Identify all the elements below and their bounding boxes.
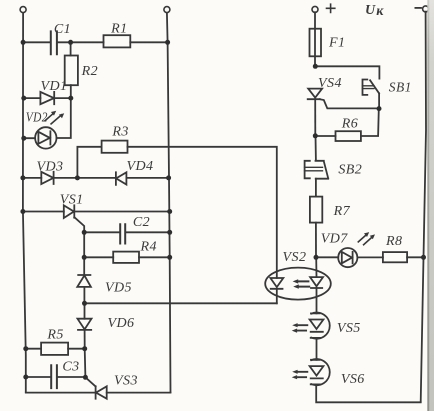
capacitor C1 <box>51 22 71 54</box>
wire R2 vertical <box>70 42 72 98</box>
node SB1-R6-gate <box>377 106 382 111</box>
diode VD4 <box>116 159 154 185</box>
wire F1 node to SB1 <box>315 66 379 78</box>
diode VD3 <box>36 159 63 184</box>
wire right rail <box>421 12 426 402</box>
diode VD6 <box>78 316 135 331</box>
svg-text:VS6: VS6 <box>341 372 365 387</box>
svg-text:VD6: VD6 <box>107 316 134 331</box>
label minus sign <box>415 7 421 9</box>
node R5 <box>23 346 28 351</box>
svg-text:R2: R2 <box>81 64 98 79</box>
node VD1 <box>21 96 26 101</box>
page edge shadow right <box>427 0 434 411</box>
thyristor VS3 <box>85 373 138 398</box>
svg-text:U: U <box>365 3 376 18</box>
wire C3 row <box>26 349 86 378</box>
svg-text:R3: R3 <box>111 125 128 140</box>
resistor R7 <box>310 197 351 223</box>
svg-text:C1: C1 <box>54 22 71 37</box>
wire bottom left row <box>26 392 171 394</box>
wire VD1 row <box>24 97 71 99</box>
label plus sign <box>327 4 335 12</box>
wire C2 row <box>84 231 170 233</box>
wire node to VD7 <box>316 256 338 258</box>
pushbutton SB2 <box>305 136 363 197</box>
resistor R4 <box>113 240 157 263</box>
wire R3 link <box>77 147 276 278</box>
node R7-VD7-VS2 <box>314 255 319 260</box>
svg-text:VD2: VD2 <box>26 110 48 125</box>
svg-text:к: к <box>376 4 384 19</box>
thyristor VS1 <box>60 193 84 233</box>
wire to VD5 <box>83 257 85 275</box>
optothyristor pair VS2 <box>265 250 331 313</box>
node F1-SB1 <box>313 64 318 69</box>
fuse F1 <box>310 29 346 57</box>
terminal plus <box>312 6 318 12</box>
capacitor C3 <box>51 359 79 388</box>
wire top row <box>23 41 168 43</box>
wire VD6 vertical <box>84 303 86 348</box>
wire VS4 to R6 node <box>314 99 316 136</box>
wire left-section right rail <box>167 12 171 391</box>
svg-text:VS3: VS3 <box>114 373 138 388</box>
svg-text:R8: R8 <box>385 234 402 249</box>
wire R4 row <box>84 232 170 257</box>
resistor R8 <box>383 234 407 262</box>
LED VD7 <box>321 231 375 267</box>
node R4 <box>82 255 87 260</box>
svg-text:R5: R5 <box>46 328 63 343</box>
svg-text:SB1: SB1 <box>389 80 412 95</box>
wire VS5 to VS6 <box>316 338 318 360</box>
wire VD5 to node <box>83 287 85 303</box>
photothyristor VS5 <box>292 313 361 339</box>
svg-text:VD1: VD1 <box>40 79 67 94</box>
wire VD3 VD4 row <box>23 177 169 179</box>
svg-text:C2: C2 <box>133 215 150 230</box>
capacitor C2 <box>120 215 150 243</box>
wire R8 to right rail <box>407 256 423 258</box>
wire node to VS2 <box>85 302 277 304</box>
svg-text:VD5: VD5 <box>105 281 132 296</box>
node R6 left <box>313 133 318 138</box>
label Uk <box>365 3 384 19</box>
svg-text:VS2: VS2 <box>283 250 307 265</box>
resistor R5 <box>41 328 68 355</box>
LED VD2 <box>26 110 64 148</box>
resistor R6 <box>315 109 379 141</box>
terminal minus <box>423 6 429 12</box>
thyristor VS4 <box>308 76 379 109</box>
node VD2 <box>21 136 26 141</box>
svg-text:VD4: VD4 <box>126 159 153 174</box>
diode VD1 <box>40 79 67 104</box>
svg-text:VS5: VS5 <box>337 321 361 336</box>
resistor R1 <box>104 22 131 48</box>
wire bottom right row <box>316 384 421 402</box>
node VD3-VD4-R3 <box>20 175 25 180</box>
svg-text:VD7: VD7 <box>321 231 349 246</box>
svg-text:C3: C3 <box>62 359 79 374</box>
photothyristor VS6 <box>292 359 365 387</box>
pushbutton SB1 <box>363 80 412 109</box>
wire VS1 row <box>23 211 170 213</box>
svg-text:SB2: SB2 <box>338 163 362 178</box>
wire left rail <box>23 12 26 391</box>
node C1-R1-R2 <box>21 40 26 45</box>
node C3 <box>23 375 28 380</box>
node R8 rail <box>421 255 426 260</box>
terminal input right <box>164 7 170 13</box>
wire R5 row <box>26 348 85 350</box>
wire VD7 to R8 <box>357 256 383 258</box>
svg-text:R6: R6 <box>341 116 358 131</box>
svg-text:VS4: VS4 <box>318 76 342 91</box>
resistor R3 <box>102 125 129 153</box>
wire plus to F1 <box>314 12 316 66</box>
svg-text:R4: R4 <box>139 240 156 255</box>
svg-text:VS1: VS1 <box>60 193 84 208</box>
svg-text:F1: F1 <box>328 35 345 50</box>
node C2 <box>82 230 87 235</box>
wire R7 to node <box>315 223 317 258</box>
terminal input left <box>20 7 26 13</box>
wire VD2 row <box>24 98 71 138</box>
node VS1 <box>20 209 25 214</box>
svg-text:VD3: VD3 <box>36 159 63 174</box>
svg-text:R7: R7 <box>333 204 351 219</box>
diode VD5 <box>77 275 132 296</box>
svg-text:R1: R1 <box>110 22 127 37</box>
node VD5-VD6 <box>82 301 87 306</box>
resistor R2 <box>65 56 98 86</box>
